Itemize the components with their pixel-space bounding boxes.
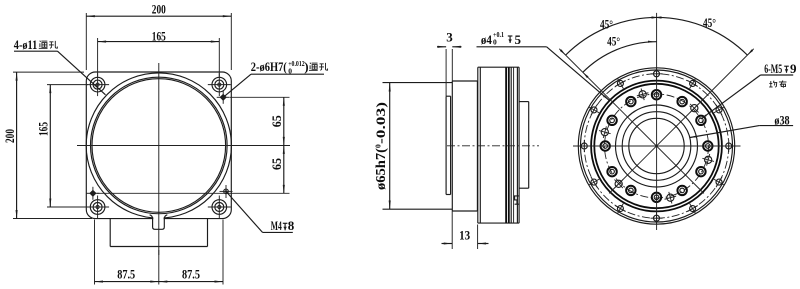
- svg-text:ø4: ø4: [481, 32, 492, 47]
- front view: tapped hole M4: [224, 189, 229, 194]
- rear view: inner bore circles: [616, 105, 698, 187]
- svg-text:165: 165: [152, 28, 166, 43]
- rear view: bolt circle (dash-dot) for 12 outer holes: [584, 74, 728, 218]
- svg-text:M4: M4: [271, 218, 282, 233]
- dim 65/65 right (pin hole offsets): [230, 96, 290, 98]
- svg-text:45°: 45°: [703, 15, 716, 30]
- dim 200 left (overall height): [13, 71, 84, 73]
- side view: main housing body: [477, 67, 479, 223]
- front view: inner circles (spigot edge): [91, 77, 228, 214]
- front view: actuator body outer circle: [86, 73, 231, 218]
- svg-text:87.5: 87.5: [182, 266, 200, 281]
- rear view: 6 holes with crosshairs at 45+60k deg (6-M5): [691, 105, 698, 112]
- rear view: bearing seat thick double circle: [591, 81, 722, 212]
- svg-text:87.5: 87.5: [117, 266, 135, 281]
- svg-text:200: 200: [2, 129, 17, 143]
- angular dimension arc 45 inner: [583, 42, 657, 73]
- svg-text:65: 65: [269, 158, 284, 170]
- svg-text:2-ø6H7(: 2-ø6H7(: [251, 59, 287, 74]
- rear view: 45 deg diagonal centerlines: [609, 49, 754, 194]
- chinese characters tong-kong (through hole) after 2-ø6H7: [309, 63, 312, 64]
- rear view: vertical centerline: [656, 13, 658, 230]
- svg-text:6-M5: 6-M5: [764, 61, 782, 76]
- side view: horizontal centerline: [447, 145, 539, 147]
- svg-text:65: 65: [269, 115, 284, 127]
- front view: vertical centerline: [158, 63, 160, 255]
- svg-text:): ): [304, 59, 308, 74]
- svg-text:ø65h7(: ø65h7(: [373, 147, 388, 190]
- dim 87.5/87.5 bottom: [94, 220, 96, 285]
- side view: raised ring on back of output disc: [445, 96, 447, 194]
- front view: 4x corner bolt holes 4-ø11 with crosshairs: [90, 77, 105, 92]
- side view: rear end cap: [519, 101, 529, 103]
- svg-text:165: 165: [36, 122, 51, 136]
- rear view: 12 counterbored screw holes every 30 deg: [703, 141, 712, 150]
- rear view: 12 outer small holes with crosshairs every 30 deg: [726, 143, 732, 149]
- svg-text:8: 8: [288, 218, 295, 233]
- front view: 2x dowel pin holes 2-ø6H7 (filled diamonds): [220, 94, 227, 101]
- chinese characters tong-kong (through hole) after 4-ø11: [39, 41, 42, 42]
- front view: horizontal centerline: [77, 145, 290, 147]
- svg-text:-0.03): -0.03): [374, 102, 388, 144]
- dim 3 at top of side view: [445, 49, 447, 96]
- arrowheads of angular dimensions: [655, 16, 662, 18]
- side view: connector bump at lower rear: [515, 196, 520, 204]
- svg-text:9: 9: [790, 61, 797, 76]
- chinese characters jun-bu (evenly spaced) under 6-M5: [770, 81, 772, 87]
- side view: front housing ring section (13 wide): [451, 81, 453, 211]
- angular dimension arc 45/45 outer: [566, 17, 748, 55]
- rear view: outer rim double circle: [578, 68, 734, 224]
- rear view: horizontal centerline: [573, 145, 741, 147]
- dim 165 left (bolt hole spacing vertical): [47, 84, 88, 86]
- svg-text:0: 0: [493, 37, 497, 46]
- dim 13 at bottom of side view: [451, 211, 453, 249]
- dim 200 top (overall width) with extension lines and arrows: [85, 13, 87, 70]
- dim 165 top (bolt hole spacing): [97, 38, 99, 77]
- svg-text:13: 13: [459, 227, 470, 242]
- svg-text:45°: 45°: [607, 34, 620, 49]
- rear view: pitch circle for mid ring of holes: [605, 94, 709, 198]
- svg-text:200: 200: [152, 2, 166, 17]
- side view: housing joint seam (thick double line): [505, 67, 507, 223]
- side view: output flange disc ø65h7 outline, left edge doubles as diameter dim line: [389, 83, 391, 209]
- front view: housing block visible below flange: [109, 219, 111, 247]
- front view: bottom keyway notch: [153, 214, 163, 228]
- svg-text:5: 5: [515, 32, 522, 47]
- svg-text:4-ø11: 4-ø11: [14, 37, 38, 52]
- front view: square mounting flange plate 200x200: [86, 72, 231, 219]
- svg-text:45°: 45°: [600, 16, 613, 31]
- svg-text:3: 3: [446, 30, 453, 45]
